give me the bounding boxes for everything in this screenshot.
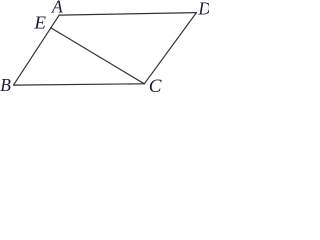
svg-text:A: A	[51, 0, 63, 17]
svg-text:B: B	[0, 75, 11, 93]
svg-text:C: C	[149, 76, 162, 93]
svg-text:E: E	[33, 13, 46, 33]
svg-text:D: D	[197, 0, 209, 19]
